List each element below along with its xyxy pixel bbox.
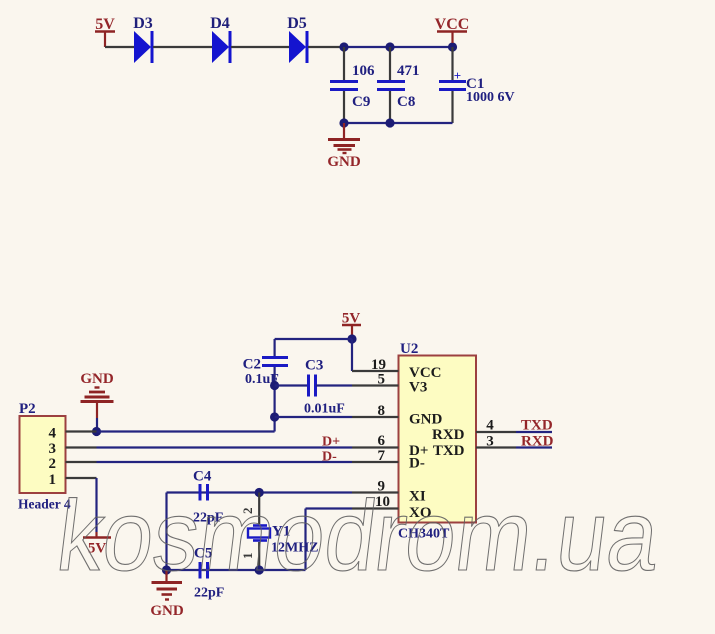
svg-text:1: 1: [49, 472, 57, 488]
pin 3 RXD stub right: [476, 434, 552, 450]
svg-text:GND: GND: [80, 371, 114, 387]
svg-text:3: 3: [49, 441, 57, 457]
wire D- net P2 pin2 to U2 pin7: [97, 461, 353, 463]
wire P2 pin1 down to 5V: [95, 478, 97, 532]
ground GND bottom left: [150, 570, 184, 619]
svg-text:3: 3: [486, 434, 494, 450]
wire XI net: [167, 491, 353, 493]
capacitor C4: [193, 469, 223, 526]
power port VCC: [435, 16, 470, 43]
wire 5V rail to C2 and U2 pin19: [275, 339, 352, 371]
net label RXD: [521, 434, 554, 450]
wire pin8 GND: [275, 416, 352, 418]
pin 7 D- stub: [352, 448, 399, 464]
connector P2 Header 4: [18, 401, 97, 512]
svg-text:2: 2: [49, 456, 57, 472]
svg-text:+: +: [454, 68, 461, 83]
svg-text:P2: P2: [19, 401, 36, 417]
ground GND top section: [327, 123, 361, 170]
net label TXD: [521, 418, 553, 434]
wire GND net P2 pin4 to C2 branch: [97, 417, 275, 432]
wire top rail: [344, 46, 453, 48]
net label D-: [322, 450, 337, 465]
wire left vertical C4/C5 to GND: [165, 493, 167, 571]
svg-text:471: 471: [397, 63, 420, 79]
junction node crystal bottom: [255, 565, 264, 574]
junction node C3 branch: [270, 381, 279, 390]
power port 5V top-left: [95, 16, 115, 47]
svg-text:C2: C2: [243, 357, 261, 373]
svg-text:C3: C3: [305, 358, 323, 374]
wire D5 to node: [308, 46, 344, 48]
svg-text:V3: V3: [409, 380, 427, 396]
wire bottom rail: [344, 122, 453, 124]
wire D4 to D5: [231, 46, 289, 48]
capacitor C5: [194, 546, 224, 601]
svg-text:D3: D3: [133, 15, 153, 32]
svg-text:RXD: RXD: [432, 427, 465, 443]
pin 4 TXD stub right: [476, 418, 552, 434]
svg-text:D+: D+: [322, 435, 340, 450]
svg-text:5: 5: [378, 372, 386, 388]
crystal Y1: [240, 493, 318, 571]
capacitor C2: [243, 357, 288, 418]
svg-text:GND: GND: [327, 154, 361, 170]
svg-text:kosmodrom.ua: kosmodrom.ua: [51, 480, 665, 592]
svg-text:C9: C9: [352, 94, 370, 110]
capacitor C1 electrolytic: [439, 47, 515, 123]
svg-text:C8: C8: [397, 94, 415, 110]
watermark kosmodrom.ua: [51, 480, 665, 592]
junction node at VCC: [448, 42, 457, 51]
svg-text:D4: D4: [210, 15, 230, 32]
IC U2 CH340T: [398, 341, 476, 542]
capacitor C9: [330, 47, 375, 123]
wire D+ net P2 pin3 to U2 pin6: [97, 446, 353, 448]
junction node crystal top: [255, 488, 264, 497]
pin 8 GND stub: [352, 403, 399, 419]
svg-text:TXD: TXD: [433, 443, 465, 459]
wire XO net: [167, 509, 353, 571]
svg-text:0.01uF: 0.01uF: [304, 402, 345, 417]
diode D4: [210, 15, 230, 63]
ground GND above P2: [80, 371, 114, 432]
svg-text:6: 6: [378, 433, 386, 449]
svg-text:4: 4: [49, 426, 57, 442]
pin 6 D+ stub: [352, 433, 399, 449]
svg-text:4: 4: [486, 418, 494, 434]
junction node at C8 bottom: [385, 118, 394, 127]
wire 5V to D3: [105, 46, 134, 48]
svg-text:RXD: RXD: [521, 434, 554, 450]
junction node GND left: [162, 565, 171, 574]
junction node at C8 top: [385, 42, 394, 51]
junction node at C9 top: [339, 42, 348, 51]
junction node 5V: [347, 334, 356, 343]
svg-text:8: 8: [378, 403, 386, 419]
pin 10 XO stub: [352, 494, 399, 510]
svg-text:GND: GND: [150, 603, 184, 619]
junction node at C9 bottom: [339, 118, 348, 127]
svg-text:GND: GND: [409, 412, 443, 428]
wire D3 to D4: [153, 46, 212, 48]
svg-text:1000 6V: 1000 6V: [466, 90, 515, 105]
power port 5V bottom: [83, 532, 111, 557]
diode D3: [133, 15, 153, 63]
svg-text:7: 7: [378, 448, 386, 464]
svg-text:TXD: TXD: [521, 418, 553, 434]
pin 9 XI stub: [352, 479, 399, 495]
power port 5V mid (above U2): [342, 311, 361, 340]
net label D+: [322, 435, 340, 450]
capacitor C8: [377, 47, 420, 123]
svg-text:D-: D-: [409, 456, 425, 472]
capacitor C3: [275, 358, 352, 417]
junction node GND / P2 pin4: [92, 427, 101, 436]
diode D5: [287, 15, 307, 63]
pin 19 VCC stub: [352, 357, 399, 373]
svg-text:D5: D5: [287, 15, 307, 32]
junction node GND branch: [270, 412, 279, 421]
pin 5 V3 stub: [352, 372, 399, 388]
svg-text:106: 106: [352, 63, 375, 79]
svg-text:D-: D-: [322, 450, 337, 465]
